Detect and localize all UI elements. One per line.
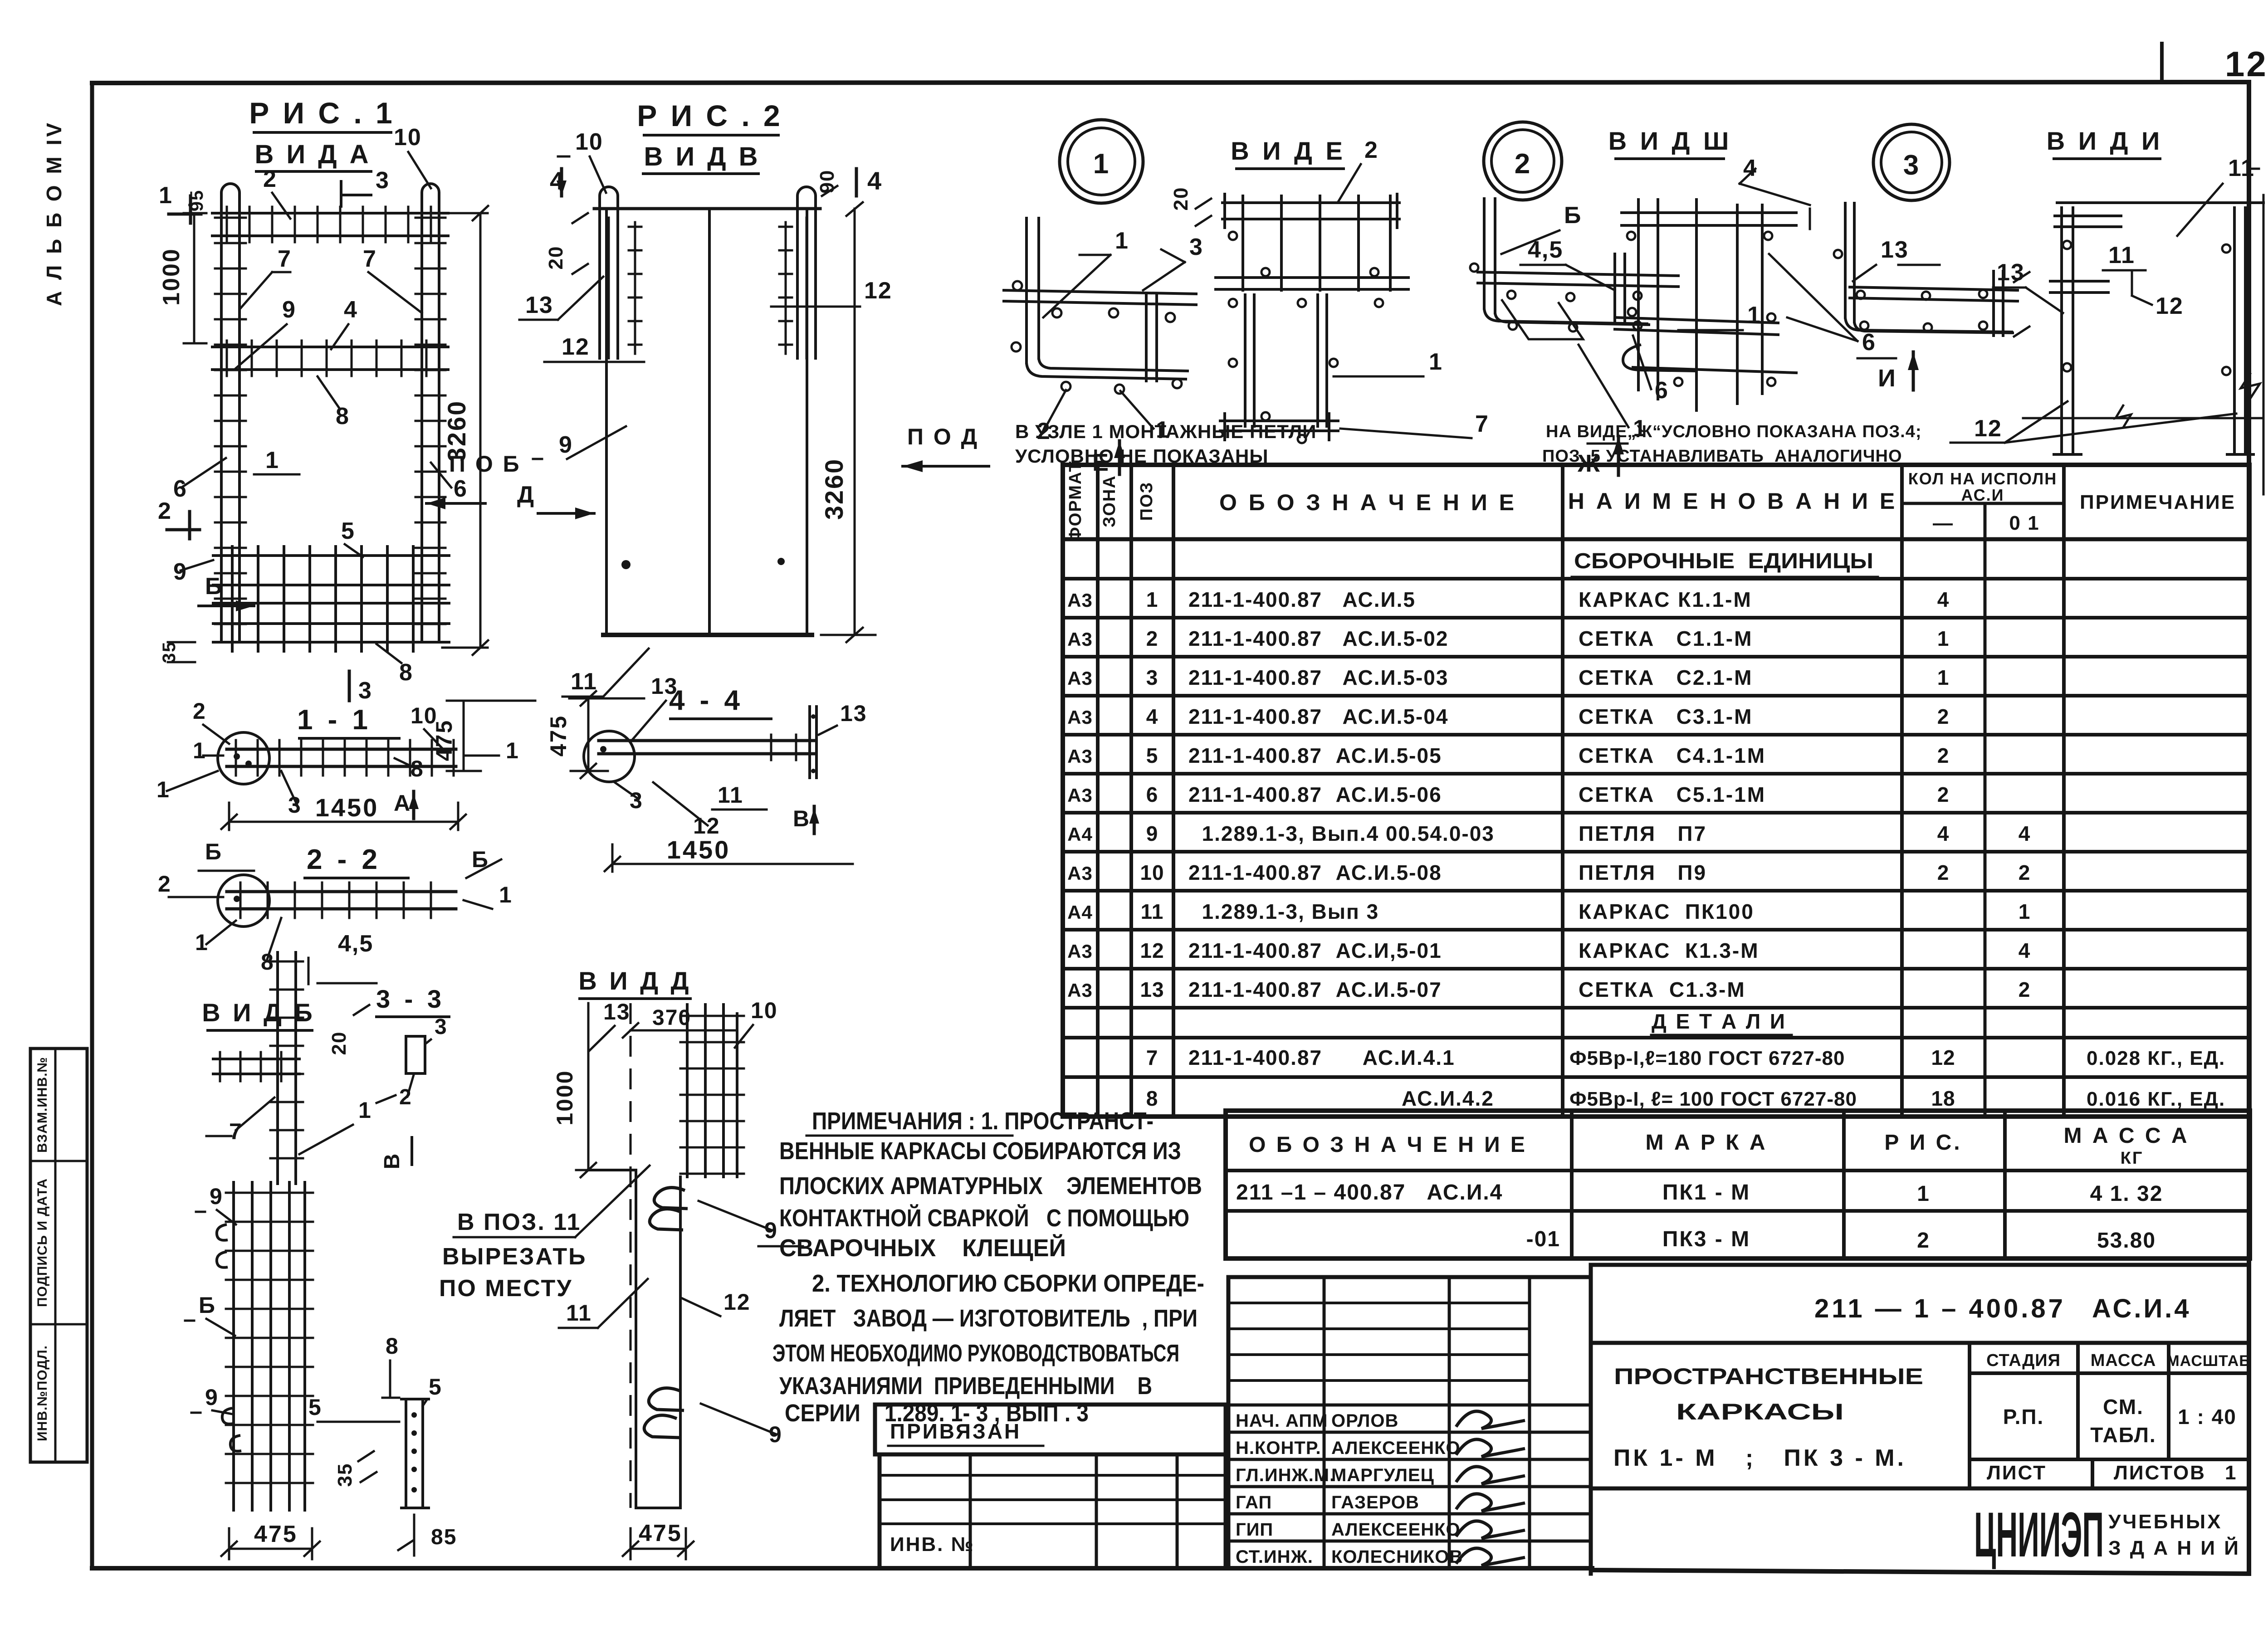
svg-text:2: 2 <box>2019 978 2031 1001</box>
detail circle 3 <box>1873 124 1950 200</box>
svg-text:6: 6 <box>454 476 468 502</box>
svg-text:Б: Б <box>205 573 223 600</box>
svg-text:АС.И.4.2: АС.И.4.2 <box>1402 1087 1494 1110</box>
svg-text:ЛИСТ: ЛИСТ <box>1987 1462 2047 1484</box>
detail 3 labels <box>1853 237 2184 392</box>
svg-text:35: 35 <box>334 1463 356 1487</box>
svg-text:ГЛ.ИНЖ.М.: ГЛ.ИНЖ.М. <box>1236 1465 1335 1485</box>
svg-text:ПОЗ: ПОЗ <box>1137 482 1156 521</box>
fig1 label 3 section flag top <box>341 167 390 206</box>
svg-text:1: 1 <box>195 930 209 955</box>
view E labels 1 7 20 <box>1170 187 1489 438</box>
svg-text:3260: 3260 <box>820 458 848 520</box>
svg-text:З Д А Н И Й: З Д А Н И Й <box>2108 1536 2240 1559</box>
svg-text:2: 2 <box>158 871 171 897</box>
marka table (ОБОЗНАЧЕНИЕ/МАРКА/РИС./МАССА) <box>1226 1111 2250 1258</box>
svg-text:ТАБЛ.: ТАБЛ. <box>2090 1423 2156 1447</box>
svg-text:—: — <box>1933 512 1954 534</box>
svg-text:СМ.: СМ. <box>2103 1395 2144 1419</box>
detail 2 corner sketch <box>1470 199 1678 339</box>
svg-text:ЭТОМ НЕОБХОДИМО РУКОВОДСТВОВ: ЭТОМ НЕОБХОДИМО РУКОВОДСТВОВАТЬСЯ <box>772 1340 1179 1367</box>
svg-text:ИНВ.№ПОДЛ.: ИНВ.№ПОДЛ. <box>35 1345 50 1441</box>
svg-text:-01: -01 <box>1526 1227 1560 1251</box>
svg-text:13: 13 <box>1997 259 2025 286</box>
fig1 right hairpin ladder <box>415 184 445 642</box>
view D note В ПОЗ.11 ВЫРЕЗАТЬ ПО МЕСТУ <box>439 1166 650 1302</box>
svg-text:211 –1 – 400.87 АС.И.4: 211 –1 – 400.87 АС.И.4 <box>1236 1180 1503 1205</box>
svg-text:13: 13 <box>651 673 678 699</box>
specification table rows text <box>1067 549 2225 1110</box>
svg-text:КАРКАС ПК100: КАРКАС ПК100 <box>1579 900 1755 923</box>
svg-text:АЛЕКСЕЕНКО: АЛЕКСЕЕНКО <box>1331 1438 1461 1458</box>
svg-text:ПК 1- М ; ПК 3 - М.: ПК 1- М ; ПК 3 - М. <box>1613 1445 1906 1471</box>
svg-text:9: 9 <box>210 1184 223 1209</box>
svg-text:11: 11 <box>718 782 743 808</box>
svg-text:1 : 40: 1 : 40 <box>2178 1405 2237 1429</box>
svg-text:4: 4 <box>1937 822 1950 845</box>
svg-text:211-1-400.87 АС.И.5-04: 211-1-400.87 АС.И.5-04 <box>1188 705 1448 728</box>
fig2 weld dots <box>621 560 631 569</box>
view D 475 dim bottom <box>623 1520 694 1559</box>
svg-text:А3: А3 <box>1067 746 1093 767</box>
svg-text:2: 2 <box>1917 1229 1930 1253</box>
fig1 section mark 1 top left <box>159 182 201 223</box>
specification table grid <box>1063 465 2249 1117</box>
svg-text:13: 13 <box>603 999 631 1024</box>
svg-text:УСЛОВНО НЕ ПОКАЗАНЫ: УСЛОВНО НЕ ПОКАЗАНЫ <box>1015 445 1268 467</box>
svg-text:А3: А3 <box>1067 707 1093 728</box>
section 1-1 <box>156 698 535 830</box>
svg-text:МАРГУЛЕЦ: МАРГУЛЕЦ <box>1331 1465 1434 1485</box>
view B labels <box>185 1097 372 1414</box>
svg-text:4: 4 <box>867 166 882 195</box>
svg-text:СЕРИИ 1.289. 1- 3 , ВЫП . 3: СЕРИИ 1.289. 1- 3 , ВЫП . 3 <box>785 1400 1089 1427</box>
svg-text:ПК1 - М: ПК1 - М <box>1662 1180 1750 1205</box>
svg-text:3: 3 <box>1189 234 1203 260</box>
svg-text:12: 12 <box>2156 293 2184 319</box>
svg-text:1: 1 <box>1747 302 1761 328</box>
svg-text:А Л Ь Б О М IV: А Л Ь Б О М IV <box>42 120 66 306</box>
svg-text:4 - 4: 4 - 4 <box>669 685 743 716</box>
svg-text:4,5: 4,5 <box>338 931 373 957</box>
note under detail 1 <box>1015 421 1316 467</box>
svg-text:Д: Д <box>517 482 535 508</box>
svg-text:5: 5 <box>1146 744 1158 767</box>
svg-text:А4: А4 <box>1067 902 1093 923</box>
left margin stamp table (ВЗАМ.ИНВ.№ / ПОДПИСЬ И ДАТА / ИНВ.№ПОДЛ.) <box>30 1049 87 1462</box>
svg-text:12: 12 <box>562 334 590 360</box>
svg-text:10: 10 <box>394 124 422 151</box>
svg-text:4: 4 <box>1937 588 1950 611</box>
svg-text:1: 1 <box>506 738 519 763</box>
view D title <box>578 966 691 999</box>
detail 3 corner sketch <box>1834 203 2029 337</box>
svg-text:8: 8 <box>386 1333 399 1359</box>
svg-text:2: 2 <box>2019 861 2031 884</box>
svg-text:А3: А3 <box>1067 863 1093 884</box>
svg-text:ПЕТЛЯ П9: ПЕТЛЯ П9 <box>1579 861 1707 884</box>
svg-text:СЕТКА С1.3-М: СЕТКА С1.3-М <box>1579 978 1746 1001</box>
svg-text:13: 13 <box>1881 237 1909 263</box>
note under detail 2 <box>1542 422 1922 466</box>
signatures squiggles <box>1456 1411 1525 1566</box>
svg-text:В И Д В: В И Д В <box>644 142 760 171</box>
svg-text:4: 4 <box>2019 939 2031 962</box>
svg-text:9: 9 <box>205 1385 219 1410</box>
stadia/massa/masshtab cells <box>1970 1343 2251 1459</box>
svg-text:В: В <box>793 806 810 831</box>
svg-text:211-1-400.87 АС.И.5-03: 211-1-400.87 АС.И.5-03 <box>1188 666 1448 689</box>
svg-text:3: 3 <box>376 167 390 194</box>
fig1 label 2 leader <box>263 166 290 219</box>
svg-text:7: 7 <box>363 246 377 272</box>
svg-text:211-1-400.87 АС.И.5: 211-1-400.87 АС.И.5 <box>1188 588 1416 611</box>
svg-text:8: 8 <box>411 756 424 781</box>
svg-text:211 — 1 – 400.87: 211 — 1 – 400.87 <box>1814 1294 2066 1323</box>
svg-text:ПРИМЕЧАНИЕ: ПРИМЕЧАНИЕ <box>2080 491 2236 513</box>
svg-text:КГ: КГ <box>2121 1149 2144 1168</box>
title block drawing title <box>1613 1364 1923 1471</box>
view И labels 13 12 <box>1950 259 2263 443</box>
svg-text:211-1-400.87 АС.И.5-06: 211-1-400.87 АС.И.5-06 <box>1188 783 1442 806</box>
fig1 top chord band <box>212 212 448 215</box>
svg-text:475: 475 <box>546 715 571 756</box>
svg-text:Р.П.: Р.П. <box>2003 1405 2044 1429</box>
svg-text:0 1: 0 1 <box>2009 512 2039 534</box>
svg-text:5: 5 <box>429 1374 442 1400</box>
svg-text:53.80: 53.80 <box>2097 1229 2156 1253</box>
svg-text:В ПОЗ. 11: В ПОЗ. 11 <box>457 1209 581 1235</box>
svg-text:ВЗАМ.ИНВ.№: ВЗАМ.ИНВ.№ <box>35 1057 50 1153</box>
svg-text:2. ТЕХНОЛОГИЮ СБОРКИ ОПРЕДЕ: 2. ТЕХНОЛОГИЮ СБОРКИ ОПРЕДЕ- <box>812 1270 1204 1297</box>
svg-text:35: 35 <box>159 641 179 663</box>
detail circle 1 <box>1060 120 1143 203</box>
fig2 label 10 <box>558 129 606 193</box>
svg-text:2: 2 <box>1937 783 1950 806</box>
svg-text:МАСШТАБ: МАСШТАБ <box>2166 1352 2250 1370</box>
specification table header texts <box>1066 460 2236 541</box>
svg-text:Р И С . 2: Р И С . 2 <box>637 99 783 132</box>
svg-text:А3: А3 <box>1067 629 1093 650</box>
svg-text:1000: 1000 <box>552 1069 577 1125</box>
fig1 label 9 and 4 <box>236 297 358 368</box>
detail 1 corner sketch <box>1004 218 1196 394</box>
svg-text:СЕТКА С2.1-М: СЕТКА С2.1-М <box>1579 666 1753 689</box>
fig2 label 12 right <box>771 278 892 307</box>
svg-text:В И Д Б: В И Д Б <box>202 998 315 1027</box>
svg-text:ПОЗ. 5 УСТАНАВЛИВАТЬ АНАЛОГИЧ: ПОЗ. 5 УСТАНАВЛИВАТЬ АНАЛОГИЧНО <box>1542 447 1902 466</box>
svg-text:Р И С.: Р И С. <box>1884 1131 1962 1155</box>
svg-text:М А Р К А: М А Р К А <box>1646 1131 1768 1155</box>
section 2-2 <box>158 839 513 984</box>
svg-text:1450: 1450 <box>315 793 379 822</box>
svg-text:1: 1 <box>1146 588 1158 611</box>
view B horizontal top bar <box>213 1052 299 1081</box>
svg-text:2: 2 <box>263 166 277 192</box>
svg-text:1 - 1: 1 - 1 <box>297 704 371 736</box>
svg-text:3: 3 <box>435 1015 448 1039</box>
svg-text:ПЕТЛЯ П7: ПЕТЛЯ П7 <box>1579 822 1707 845</box>
svg-text:ИНВ. №: ИНВ. № <box>890 1533 975 1556</box>
view E title <box>1231 137 1378 202</box>
svg-text:АС.И: АС.И <box>1961 486 2004 504</box>
fig1 title РИС.1 / ВИД А <box>249 96 395 171</box>
fig1 middle band (mesh C) <box>212 346 448 348</box>
svg-text:13: 13 <box>840 701 867 726</box>
svg-text:9: 9 <box>173 559 187 585</box>
fig2 label 11 <box>562 649 649 697</box>
svg-text:1: 1 <box>2019 900 2031 923</box>
svg-text:12: 12 <box>2225 44 2268 84</box>
fig2 dim 90 <box>816 170 838 196</box>
svg-text:ГАП: ГАП <box>1236 1493 1272 1512</box>
svg-text:1.289.1-3, Вып.4 00.54.0-03: 1.289.1-3, Вып.4 00.54.0-03 <box>1188 822 1495 845</box>
svg-text:12: 12 <box>1140 939 1164 962</box>
view D top right ladder <box>680 1005 744 1177</box>
svg-text:12: 12 <box>1974 415 2002 442</box>
svg-text:И: И <box>1878 365 1897 392</box>
svg-text:12: 12 <box>1931 1046 1955 1069</box>
view D column <box>588 1003 680 1508</box>
svg-text:КАРКАСЫ: КАРКАСЫ <box>1676 1399 1844 1424</box>
svg-text:10: 10 <box>1140 861 1164 884</box>
svg-text:1: 1 <box>1917 1182 1930 1206</box>
fig2 left hairpin <box>600 187 641 358</box>
notes text block <box>772 1107 1204 1427</box>
svg-text:УЧЕБНЫХ: УЧЕБНЫХ <box>2108 1511 2222 1533</box>
fig1 label 8 <box>318 376 350 429</box>
svg-text:А3: А3 <box>1067 668 1093 689</box>
fig1 dimension 1000 left <box>158 213 206 343</box>
svg-text:ПРИМЕЧАНИЯ : 1. ПРОСТРАНСТ-: ПРИМЕЧАНИЯ : 1. ПРОСТРАНСТ- <box>812 1107 1154 1135</box>
svg-text:211-1-400.87 АС.И.4.1: 211-1-400.87 АС.И.4.1 <box>1188 1046 1455 1069</box>
svg-text:1450: 1450 <box>667 835 731 864</box>
svg-text:П О Д: П О Д <box>907 424 979 449</box>
svg-text:1: 1 <box>358 1097 372 1123</box>
svg-text:11: 11 <box>566 1300 592 1326</box>
svg-text:Ф5Вр-I,ℓ=180 ГОСТ 6727-80: Ф5Вр-I,ℓ=180 ГОСТ 6727-80 <box>1569 1047 1845 1069</box>
privyazan box <box>875 1405 1226 1454</box>
section 3-3 title and small bars <box>328 985 449 1169</box>
view Ш sketch grid <box>1615 200 1810 410</box>
svg-text:ВЫРЕЗАТЬ: ВЫРЕЗАТЬ <box>442 1244 587 1270</box>
svg-text:ПО МЕСТУ: ПО МЕСТУ <box>439 1275 573 1302</box>
svg-text:А: А <box>394 790 411 816</box>
svg-text:1: 1 <box>1115 228 1129 254</box>
svg-text:В И Д Е: В И Д Е <box>1231 137 1346 165</box>
svg-text:10: 10 <box>751 998 778 1023</box>
svg-text:ФОРМАТ: ФОРМАТ <box>1066 460 1085 541</box>
svg-text:КОЛ НА ИСПОЛН: КОЛ НА ИСПОЛН <box>1908 469 2057 488</box>
organization ЦНИИЭП учебных зданий <box>1974 1499 2240 1570</box>
svg-text:ЗОНА: ЗОНА <box>1100 475 1119 527</box>
svg-text:1: 1 <box>2225 1462 2237 1484</box>
svg-text:4: 4 <box>344 297 358 323</box>
fig2 right hairpin <box>779 187 816 358</box>
svg-text:КОЛЕСНИКОВ: КОЛЕСНИКОВ <box>1331 1547 1463 1567</box>
view B hooks <box>217 1224 228 1240</box>
page number 12 top right <box>2162 44 2268 84</box>
fig1 dim 35 bottom <box>159 641 195 663</box>
fig1 section mark 3 bottom <box>349 671 372 704</box>
svg-text:1: 1 <box>159 182 173 209</box>
svg-text:2: 2 <box>1515 148 1531 180</box>
fig1 label 9 lower <box>173 559 213 585</box>
svg-text:0.016 КГ., ЕД.: 0.016 КГ., ЕД. <box>2087 1088 2225 1110</box>
fig1 labels 7 7 <box>240 246 422 313</box>
svg-text:1: 1 <box>499 882 513 907</box>
fig1 label 10 <box>394 124 431 188</box>
fig2 label 12 left <box>544 334 644 362</box>
svg-text:475: 475 <box>254 1521 298 1547</box>
svg-text:Ф5Вр-I, ℓ= 100 ГОСТ 6727-80: Ф5Вр-I, ℓ= 100 ГОСТ 6727-80 <box>1569 1088 1857 1110</box>
view B 475 dim <box>221 1521 320 1559</box>
svg-text:1: 1 <box>1937 666 1950 689</box>
svg-text:3: 3 <box>1146 666 1158 689</box>
svg-text:Р И С . 1: Р И С . 1 <box>249 96 395 130</box>
fig2 view arrows ПОБ ПОД Д <box>426 424 989 519</box>
view B upper ladder <box>270 952 303 1184</box>
svg-text:ПРОСТРАНСТВЕННЫЕ: ПРОСТРАНСТВЕННЫЕ <box>1614 1364 1923 1389</box>
svg-text:СВАРОЧНЫХ КЛЕЩЕЙ: СВАРОЧНЫХ КЛЕЩЕЙ <box>779 1234 1066 1262</box>
svg-text:4: 4 <box>2019 822 2031 845</box>
fig1 left hairpin ladder <box>215 184 246 642</box>
svg-text:СБОРОЧНЫЕ ЕДИНИЦЫ: СБОРОЧНЫЕ ЕДИНИЦЫ <box>1574 549 1873 573</box>
svg-text:2: 2 <box>1937 705 1950 728</box>
svg-text:Б: Б <box>1564 202 1582 229</box>
view D 1000 dim <box>552 1003 601 1177</box>
svg-text:МАССА: МАССА <box>2091 1351 2156 1370</box>
svg-text:АС.И.4: АС.И.4 <box>2092 1294 2191 1323</box>
svg-text:4 1. 32: 4 1. 32 <box>2090 1182 2163 1206</box>
svg-text:1000: 1000 <box>158 248 185 306</box>
svg-text:ВЕННЫЕ КАРКАСЫ СОБИРАЮТСЯ И: ВЕННЫЕ КАРКАСЫ СОБИРАЮТСЯ ИЗ <box>779 1137 1181 1165</box>
signature table <box>1228 1277 1591 1568</box>
svg-text:ЦНИИЭП: ЦНИИЭП <box>1974 1499 2104 1570</box>
view И title <box>2047 127 2259 236</box>
svg-text:3: 3 <box>358 678 372 704</box>
svg-text:НА ВИДЕ„Ж“УСЛОВНО ПОКАЗАНА ПОЗ: НА ВИДЕ„Ж“УСЛОВНО ПОКАЗАНА ПОЗ.4; <box>1546 422 1922 441</box>
svg-text:А3: А3 <box>1067 980 1093 1001</box>
svg-text:7: 7 <box>1475 411 1489 437</box>
svg-text:2: 2 <box>1937 744 1950 767</box>
view И sketch <box>2050 195 2263 494</box>
fig1 bottom mesh <box>213 546 449 651</box>
detail 2 labels <box>1501 202 1669 477</box>
svg-text:3 - 3: 3 - 3 <box>376 985 445 1013</box>
svg-text:9: 9 <box>282 297 296 323</box>
svg-text:1: 1 <box>1093 148 1110 180</box>
svg-text:2: 2 <box>1937 861 1950 884</box>
svg-text:2 - 2: 2 - 2 <box>307 844 381 875</box>
svg-text:П О Б: П О Б <box>449 451 521 477</box>
svg-text:СТАДИЯ: СТАДИЯ <box>1986 1351 2061 1370</box>
svg-text:9: 9 <box>559 432 573 458</box>
svg-text:2: 2 <box>158 498 172 524</box>
svg-text:4,5: 4,5 <box>1528 237 1563 263</box>
list/listov row <box>1970 1459 2249 1488</box>
svg-text:СТ.ИНЖ.: СТ.ИНЖ. <box>1236 1547 1313 1567</box>
svg-text:АЛЕКСЕЕНКО: АЛЕКСЕЕНКО <box>1331 1520 1461 1540</box>
svg-text:3: 3 <box>1903 150 1920 181</box>
view D labels <box>559 1201 803 1447</box>
svg-text:7: 7 <box>278 246 292 272</box>
svg-text:КАРКАС К1.3-М: КАРКАС К1.3-М <box>1579 939 1760 962</box>
view B title <box>202 998 315 1030</box>
svg-text:КАРКАС К1.1-М: КАРКАС К1.1-М <box>1579 588 1752 611</box>
fig2 label 9 <box>533 426 626 459</box>
svg-text:О Б О З Н А Ч Е Н И Е: О Б О З Н А Ч Е Н И Е <box>1219 490 1517 515</box>
svg-text:О Б О З Н А Ч Е Н И Е: О Б О З Н А Ч Е Н И Е <box>1249 1133 1527 1157</box>
svg-text:НАЧ. АПМ: НАЧ. АПМ <box>1236 1411 1328 1431</box>
svg-text:0.028 КГ., ЕД.: 0.028 КГ., ЕД. <box>2087 1047 2225 1069</box>
svg-text:11: 11 <box>2108 242 2135 268</box>
svg-text:ПОДПИСЬ И ДАТА: ПОДПИСЬ И ДАТА <box>35 1178 50 1307</box>
svg-text:211-1-400.87 АС.И.5-08: 211-1-400.87 АС.И.5-08 <box>1188 861 1442 884</box>
svg-text:20: 20 <box>545 246 567 270</box>
svg-text:20: 20 <box>328 1031 350 1055</box>
svg-text:А3: А3 <box>1067 590 1093 611</box>
svg-text:ПЛОСКИХ АРМАТУРНЫХ ЭЛЕМЕНТ: ПЛОСКИХ АРМАТУРНЫХ ЭЛЕМЕНТОВ <box>779 1172 1202 1200</box>
svg-text:ЛИСТОВ: ЛИСТОВ <box>2114 1462 2206 1484</box>
svg-text:85: 85 <box>431 1525 457 1549</box>
section 3-3 lower bar (items 5,8) <box>308 1333 457 1556</box>
svg-text:М А С С А: М А С С А <box>2064 1124 2190 1148</box>
svg-text:370: 370 <box>652 1006 691 1030</box>
section 4-4 <box>546 673 867 872</box>
detail circle 2 <box>1484 122 1562 200</box>
fig1 section mark Б left arrow <box>199 573 254 611</box>
view D hooks item 9 <box>644 1188 688 1438</box>
svg-text:20: 20 <box>1170 187 1192 211</box>
svg-text:211-1-400.87 АС.И.5-05: 211-1-400.87 АС.И.5-05 <box>1188 744 1442 767</box>
svg-text:6: 6 <box>1862 329 1876 356</box>
view E sketch <box>1216 194 1408 443</box>
fig2 dim 3260 <box>820 202 875 642</box>
svg-text:2: 2 <box>1364 137 1378 163</box>
svg-text:1: 1 <box>193 738 206 763</box>
fig1 label 5 mesh <box>341 518 363 557</box>
svg-text:90: 90 <box>816 170 838 194</box>
fig2 column outline <box>594 209 820 635</box>
svg-text:11: 11 <box>571 668 597 695</box>
svg-text:3: 3 <box>288 792 302 818</box>
view Ш labels <box>1678 254 1896 358</box>
svg-text:ОРЛОВ: ОРЛОВ <box>1331 1411 1398 1431</box>
svg-text:ПК3 - М: ПК3 - М <box>1662 1227 1750 1251</box>
svg-text:8: 8 <box>1146 1087 1158 1110</box>
svg-text:475: 475 <box>639 1520 682 1546</box>
svg-text:12: 12 <box>864 278 892 304</box>
svg-text:А4: А4 <box>1067 824 1093 845</box>
svg-text:Д Е Т А Л И: Д Е Т А Л И <box>1652 1010 1787 1033</box>
svg-text:9: 9 <box>1146 822 1158 845</box>
svg-text:ГИП: ГИП <box>1236 1520 1273 1540</box>
view D 370 dim <box>589 998 778 1051</box>
svg-text:Б: Б <box>205 839 222 864</box>
svg-text:13: 13 <box>525 292 553 318</box>
svg-text:ЛЯЕТ ЗАВОД — ИЗГОТОВИТЕЛЬ ,: ЛЯЕТ ЗАВОД — ИЗГОТОВИТЕЛЬ , ПРИ <box>779 1305 1198 1332</box>
svg-text:А3: А3 <box>1067 941 1093 962</box>
view Ш title <box>1608 127 1810 205</box>
svg-text:7: 7 <box>1146 1046 1158 1069</box>
svg-text:5: 5 <box>341 518 355 544</box>
fig2 section 4 marks <box>550 166 882 196</box>
svg-text:2: 2 <box>193 698 206 724</box>
svg-text:211-1-400.87 АС.И.5-02: 211-1-400.87 АС.И.5-02 <box>1188 627 1448 650</box>
svg-text:18: 18 <box>1931 1087 1955 1110</box>
svg-text:1: 1 <box>265 447 279 473</box>
